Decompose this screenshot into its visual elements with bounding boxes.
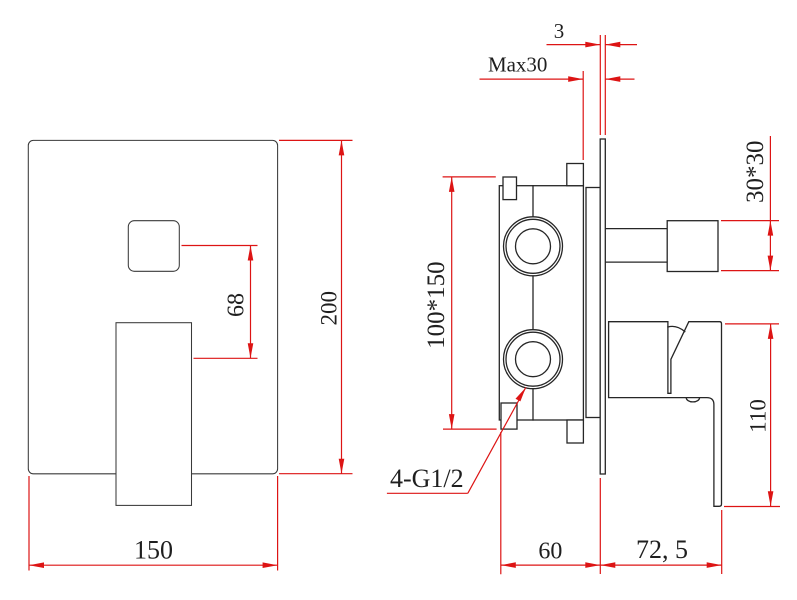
- bottom inlet port bore: [516, 342, 551, 377]
- arrow 68 down: [248, 343, 254, 358]
- valve body: [499, 186, 583, 420]
- 110 bottom extension line: [724, 506, 780, 508]
- arrow 60 left: [501, 562, 516, 568]
- handle base and lever outline (side): [609, 322, 722, 507]
- 4-G1/2 leader arrow: [516, 388, 526, 402]
- svg-text:Max30: Max30: [488, 53, 548, 77]
- extension line plate bottom left vertical: [28, 476, 30, 571]
- dimension 72,5 line: [600, 564, 721, 566]
- 100*150 dimension line: [451, 177, 453, 429]
- dimension 200 line: [341, 140, 343, 473]
- 100*150 top extension line: [443, 176, 496, 178]
- extension line plate top right: [279, 139, 353, 141]
- svg-text:72, 5: 72, 5: [636, 535, 688, 564]
- handle set-screw dome: [686, 398, 699, 402]
- 100*150 bottom extension line: [443, 428, 497, 430]
- 72,5 right extension line: [721, 510, 723, 574]
- svg-text:100*150: 100*150: [423, 261, 450, 349]
- body bottom-right tab: [567, 420, 583, 443]
- 60 left extension line: [500, 432, 502, 574]
- svg-text:3: 3: [554, 19, 565, 43]
- arrow 68 up: [248, 246, 254, 261]
- svg-text:4-G1/2: 4-G1/2: [390, 464, 464, 493]
- arrow 60 right: [585, 562, 600, 568]
- Max30 dimension line: [480, 78, 584, 80]
- arrow 72,5 right: [707, 562, 722, 568]
- arrow 72,5 left: [600, 562, 615, 568]
- Max30 extension line: [582, 71, 584, 160]
- top inlet port outer circle: [504, 217, 563, 276]
- 4-G1/2 leader line: [468, 388, 526, 494]
- handle pivot arc: [668, 326, 685, 331]
- extension line from lever: [194, 357, 258, 359]
- body top-left tab: [503, 177, 517, 200]
- arrow 150 right: [263, 562, 278, 568]
- 110 top extension line: [725, 323, 779, 325]
- cartridge column between body and wall plate: [586, 188, 600, 418]
- dimension 3 line right: [605, 44, 637, 46]
- arrow 100*150 down: [449, 414, 455, 429]
- diverter button: [128, 221, 179, 272]
- 60/72,5 shared extension line: [599, 478, 601, 574]
- 30*30 upper extension line: [721, 220, 779, 222]
- arrow 30*30 down: [768, 256, 774, 271]
- svg-text:68: 68: [224, 293, 250, 317]
- lever handle (front): [116, 323, 192, 506]
- extension line plate bottom right: [279, 473, 353, 475]
- arrow 150 left: [29, 562, 44, 568]
- spout pipe bottom line: [606, 261, 667, 263]
- 4-G1/2 underline: [387, 492, 468, 494]
- body centerline segment top: [532, 186, 534, 217]
- dimension 3: right extension line: [604, 35, 606, 135]
- svg-text:200: 200: [316, 291, 341, 326]
- wall plate (escutcheon, thickness 3): [600, 139, 605, 474]
- body top-right tab: [567, 164, 584, 186]
- body centerline segment bottom: [532, 389, 534, 420]
- arrow 110 down: [768, 491, 774, 506]
- arrow 100*150 up: [449, 177, 455, 192]
- arrow 110 up: [768, 324, 774, 339]
- 110 dimension line: [770, 324, 772, 506]
- svg-text:30*30: 30*30: [742, 140, 769, 203]
- arrow Max30 left-pointing: [605, 76, 620, 82]
- arrow 200 up: [339, 140, 345, 155]
- Max30 dimension line right: [605, 78, 634, 80]
- dimension 60 line: [501, 564, 601, 566]
- arrow 3 right-pointing: [585, 42, 600, 48]
- top inlet port bore: [516, 229, 551, 264]
- extension line plate bottom right vertical: [277, 476, 279, 571]
- arrow Max30 right-pointing: [568, 76, 583, 82]
- dimension 3 line left: [547, 44, 601, 46]
- svg-text:110: 110: [745, 399, 770, 433]
- arrow 200 down: [339, 459, 345, 474]
- spout pipe top line: [606, 228, 667, 230]
- dimension 150 line: [29, 564, 278, 566]
- dimension 3: left extension line: [599, 35, 601, 135]
- 30*30 lower extension line: [721, 270, 779, 272]
- plate (front cover 150x200): [28, 140, 277, 473]
- bottom inlet port ring: [506, 332, 560, 386]
- top inlet port ring: [506, 219, 560, 273]
- body bottom-left tab: [501, 403, 517, 429]
- spout square end 30x30: [667, 221, 718, 272]
- body centerline segment middle: [532, 276, 534, 330]
- 30*30 dimension line: [769, 136, 771, 271]
- arrow 30*30 up: [768, 221, 774, 236]
- svg-text:60: 60: [538, 539, 562, 565]
- bottom inlet port outer circle: [504, 330, 563, 389]
- svg-text:150: 150: [134, 536, 173, 565]
- extension line from button: [182, 245, 258, 247]
- dimension 68 line: [250, 246, 252, 359]
- arrow 3 left-pointing: [605, 42, 620, 48]
